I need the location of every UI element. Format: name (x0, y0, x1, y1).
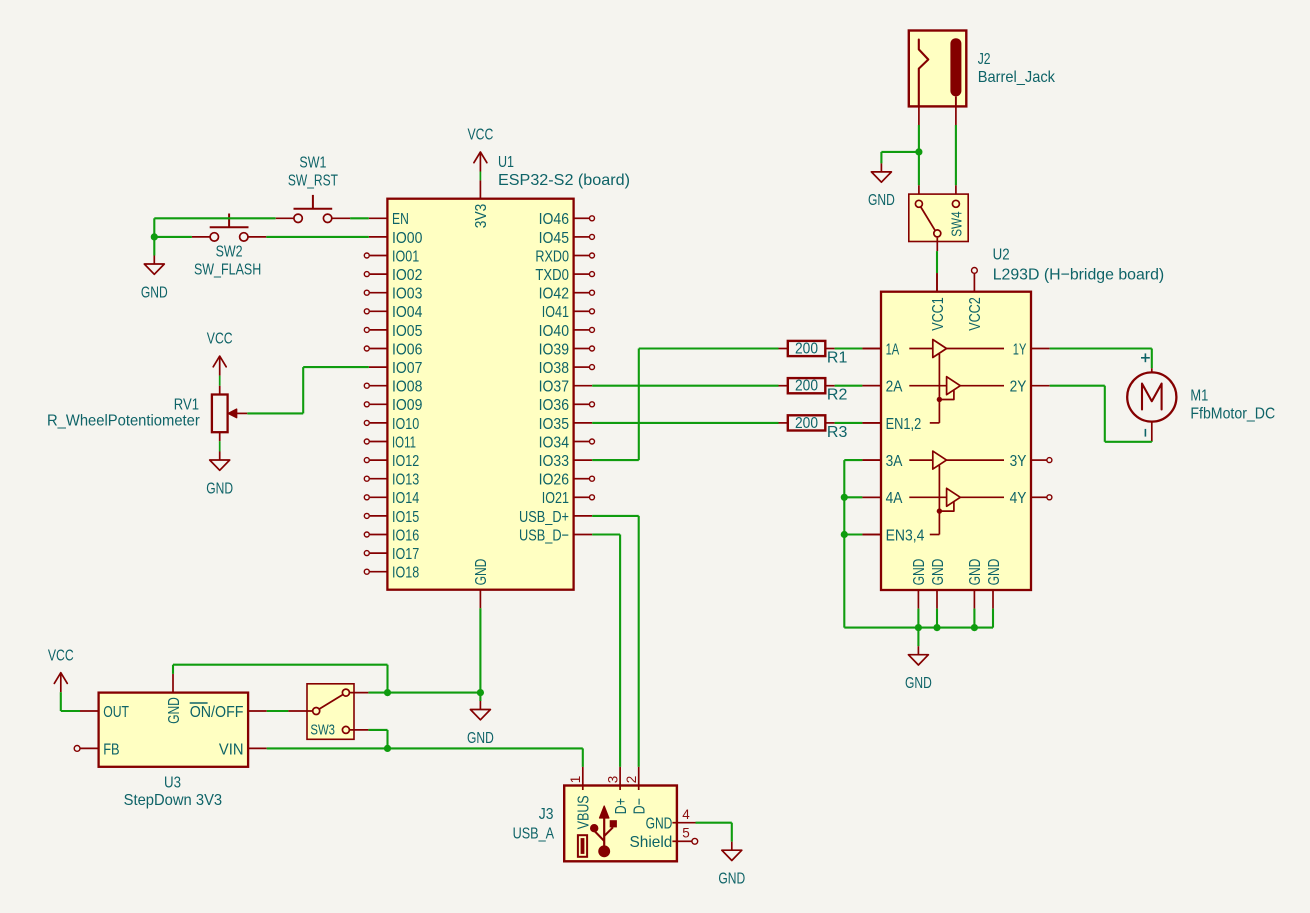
svg-text:IO07: IO07 (392, 360, 422, 377)
svg-text:VCC2: VCC2 (967, 297, 984, 331)
svg-text:IO09: IO09 (392, 397, 422, 414)
svg-text:IO15: IO15 (392, 509, 419, 526)
svg-text:1: 1 (568, 776, 583, 784)
svg-text:5: 5 (682, 825, 690, 840)
svg-text:IO17: IO17 (392, 546, 419, 563)
svg-text:IO10: IO10 (392, 416, 419, 433)
svg-text:3V3: 3V3 (473, 204, 490, 229)
svg-text:IO42: IO42 (539, 286, 569, 303)
svg-text:IO13: IO13 (392, 472, 419, 489)
svg-text:IO35: IO35 (539, 416, 569, 433)
svg-text:VCC: VCC (207, 331, 233, 348)
svg-text:IO16: IO16 (392, 527, 419, 544)
svg-text:IO05: IO05 (392, 323, 422, 340)
svg-text:IO36: IO36 (539, 397, 569, 414)
svg-text:ESP32-S2 (board): ESP32-S2 (board) (498, 172, 630, 189)
svg-text:Barrel_Jack: Barrel_Jack (978, 69, 1056, 86)
svg-text:U1: U1 (498, 154, 514, 171)
svg-text:SW_FLASH: SW_FLASH (194, 262, 261, 279)
svg-text:IO26: IO26 (539, 472, 569, 489)
svg-text:VCC1: VCC1 (930, 297, 947, 331)
svg-text:VCC: VCC (468, 127, 494, 144)
svg-text:4A: 4A (886, 490, 903, 507)
svg-text:IO01: IO01 (392, 248, 419, 265)
svg-text:SW1: SW1 (299, 155, 326, 172)
svg-text:R3: R3 (827, 424, 848, 441)
svg-text:GND: GND (646, 816, 673, 833)
svg-text:M1: M1 (1190, 387, 1208, 404)
svg-text:IO06: IO06 (392, 341, 422, 358)
svg-text:4: 4 (682, 807, 690, 822)
svg-text:StepDown 3V3: StepDown 3V3 (124, 792, 223, 809)
svg-text:L293D (H−bridge board): L293D (H−bridge board) (993, 266, 1164, 283)
svg-text:GND: GND (473, 559, 490, 586)
svg-text:EN1,2: EN1,2 (886, 416, 922, 433)
svg-text:IO40: IO40 (539, 323, 569, 340)
svg-text:USB_A: USB_A (513, 825, 555, 842)
svg-text:ON/OFF: ON/OFF (190, 704, 244, 721)
svg-text:RV1: RV1 (174, 396, 199, 413)
svg-text:IO21: IO21 (542, 490, 569, 507)
svg-text:IO03: IO03 (392, 286, 422, 303)
svg-text:IO04: IO04 (392, 304, 422, 321)
svg-text:RXD0: RXD0 (535, 248, 569, 265)
svg-text:IO41: IO41 (542, 304, 569, 321)
svg-text:R_WheelPotentiometer: R_WheelPotentiometer (47, 412, 200, 429)
svg-text:200: 200 (795, 378, 818, 395)
svg-text:SW_RST: SW_RST (288, 173, 338, 190)
svg-text:IO37: IO37 (539, 379, 569, 396)
svg-text:FfbMotor_DC: FfbMotor_DC (1190, 405, 1275, 422)
svg-text:SW2: SW2 (216, 244, 243, 261)
svg-text:TXD0: TXD0 (535, 267, 569, 284)
svg-text:GND: GND (718, 871, 745, 888)
svg-text:VIN: VIN (219, 741, 244, 758)
svg-text:1Y: 1Y (1013, 341, 1027, 358)
svg-text:4Y: 4Y (1010, 490, 1027, 507)
svg-text:2A: 2A (886, 379, 903, 396)
svg-text:GND: GND (206, 480, 233, 497)
svg-text:D−: D− (632, 798, 649, 814)
svg-text:EN3,4: EN3,4 (886, 527, 925, 544)
svg-text:J2: J2 (978, 51, 991, 68)
svg-text:VBUS: VBUS (576, 795, 593, 829)
svg-text:R2: R2 (827, 387, 848, 404)
svg-text:Shield: Shield (630, 834, 673, 851)
svg-text:GND: GND (141, 284, 168, 301)
svg-text:D+: D+ (613, 798, 630, 814)
svg-text:GND: GND (905, 675, 932, 692)
svg-text:IO14: IO14 (392, 490, 419, 507)
svg-text:J3: J3 (539, 806, 554, 823)
svg-text:EN: EN (392, 211, 409, 228)
svg-text:1A: 1A (886, 341, 900, 358)
svg-text:GND: GND (911, 559, 928, 586)
svg-text:U3: U3 (164, 775, 181, 792)
svg-text:3A: 3A (886, 453, 903, 470)
svg-text:OUT: OUT (103, 704, 129, 721)
svg-text:USB_D+: USB_D+ (519, 509, 569, 526)
svg-text:GND: GND (967, 559, 984, 586)
svg-text:3: 3 (605, 776, 620, 784)
svg-text:SW3: SW3 (310, 723, 335, 739)
svg-text:200: 200 (795, 340, 818, 357)
svg-text:2: 2 (624, 776, 639, 784)
svg-text:IO08: IO08 (392, 379, 422, 396)
svg-text:IO02: IO02 (392, 267, 422, 284)
svg-text:GND: GND (467, 730, 494, 747)
svg-text:SW4: SW4 (949, 211, 965, 236)
svg-text:IO18: IO18 (392, 565, 419, 582)
svg-text:GND: GND (166, 697, 183, 724)
svg-text:IO39: IO39 (539, 341, 569, 358)
svg-text:VCC: VCC (48, 647, 74, 664)
svg-text:2Y: 2Y (1010, 379, 1027, 396)
svg-text:U2: U2 (993, 246, 1010, 263)
svg-text:GND: GND (930, 559, 947, 586)
svg-text:200: 200 (795, 415, 818, 432)
svg-text:R1: R1 (827, 349, 848, 366)
svg-text:IO12: IO12 (392, 453, 419, 470)
svg-text:USB_D−: USB_D− (519, 527, 569, 544)
svg-text:GND: GND (868, 192, 895, 209)
svg-text:IO46: IO46 (539, 211, 569, 228)
svg-text:3Y: 3Y (1010, 453, 1027, 470)
svg-text:GND: GND (986, 559, 1003, 586)
svg-text:IO00: IO00 (392, 230, 422, 247)
svg-text:FB: FB (103, 741, 119, 758)
svg-text:IO34: IO34 (539, 434, 569, 451)
svg-text:IO45: IO45 (539, 230, 569, 247)
svg-text:IO38: IO38 (539, 360, 569, 377)
svg-text:IO11: IO11 (392, 434, 416, 451)
svg-text:IO33: IO33 (539, 453, 569, 470)
